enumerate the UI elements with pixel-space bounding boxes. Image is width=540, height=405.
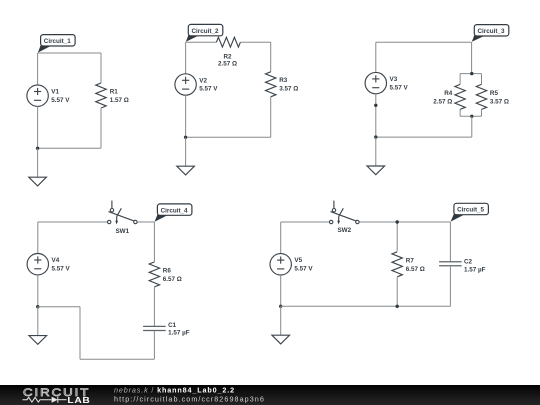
- svg-text:Circuit_1: Circuit_1: [44, 38, 71, 45]
- svg-text:1.57 µF: 1.57 µF: [168, 330, 190, 337]
- svg-text:2.57 Ω: 2.57 Ω: [433, 98, 452, 105]
- svg-text:SW1: SW1: [115, 228, 129, 235]
- svg-text:3.57 Ω: 3.57 Ω: [490, 98, 509, 105]
- svg-text:nebras.k / khann84_Lab0_2.2: nebras.k / khann84_Lab0_2.2: [114, 385, 235, 394]
- svg-text:R1: R1: [110, 88, 119, 95]
- svg-text:2.57 Ω: 2.57 Ω: [218, 60, 237, 67]
- svg-text:http://circuitlab.com/ccr82698: http://circuitlab.com/ccr82698ap3n6: [114, 394, 265, 403]
- svg-text:R3: R3: [279, 77, 288, 84]
- svg-text:V2: V2: [199, 77, 207, 84]
- svg-text:R4: R4: [444, 90, 453, 97]
- svg-text:V1: V1: [51, 89, 59, 96]
- svg-text:Circuit_2: Circuit_2: [192, 28, 219, 35]
- svg-text:R6: R6: [163, 267, 172, 274]
- svg-text:1.57 µF: 1.57 µF: [464, 266, 486, 273]
- svg-text:V5: V5: [294, 257, 302, 264]
- svg-text:LAB: LAB: [67, 396, 90, 405]
- svg-text:V3: V3: [390, 76, 398, 83]
- svg-text:5.57 V: 5.57 V: [51, 97, 70, 104]
- svg-text:V4: V4: [52, 257, 60, 264]
- svg-text:Circuit_5: Circuit_5: [457, 207, 484, 214]
- svg-text:3.57 Ω: 3.57 Ω: [279, 86, 298, 93]
- svg-text:5.57 V: 5.57 V: [199, 86, 218, 93]
- svg-text:R7: R7: [406, 257, 415, 264]
- svg-text:Circuit_4: Circuit_4: [161, 207, 188, 214]
- svg-text:R5: R5: [490, 90, 499, 97]
- svg-text:C1: C1: [168, 322, 177, 329]
- svg-text:6.57 Ω: 6.57 Ω: [406, 266, 425, 273]
- svg-text:1.57 Ω: 1.57 Ω: [110, 97, 129, 104]
- svg-text:SW2: SW2: [337, 227, 351, 234]
- svg-text:5.57 V: 5.57 V: [52, 265, 71, 272]
- svg-text:C2: C2: [464, 259, 473, 266]
- svg-text:5.57 V: 5.57 V: [294, 266, 313, 273]
- svg-text:Circuit_3: Circuit_3: [478, 28, 505, 35]
- svg-text:5.57 V: 5.57 V: [390, 84, 409, 91]
- svg-text:6.57 Ω: 6.57 Ω: [163, 276, 182, 283]
